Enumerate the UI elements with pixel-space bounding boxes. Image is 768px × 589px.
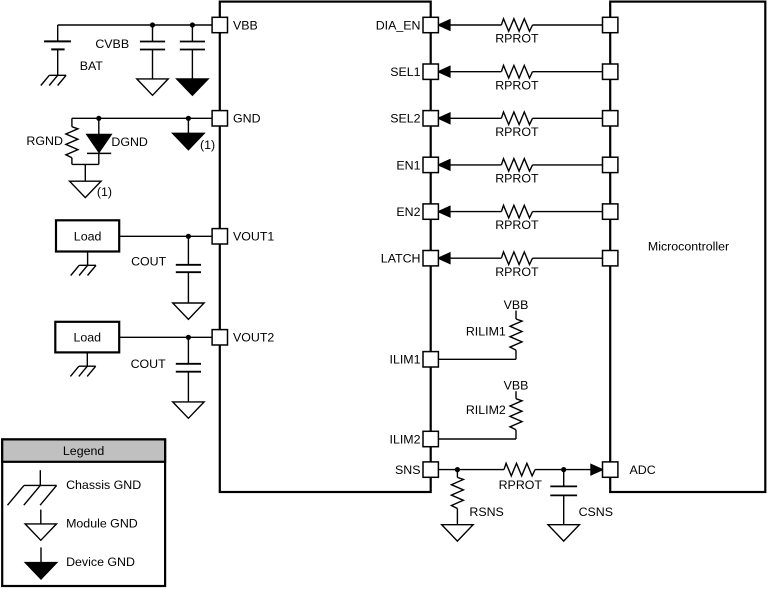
device ground (1) at GND pin (173, 133, 204, 149)
pin GND (212, 111, 227, 126)
node junction device ground at GND (186, 116, 191, 121)
svg-text:VOUT1: VOUT1 (233, 230, 274, 244)
svg-text:Chassis GND: Chassis GND (66, 478, 141, 492)
wire EN2 from arrow to resistor (450, 211, 502, 213)
svg-text:RILIM1: RILIM1 (466, 325, 506, 339)
resistor RPROT (EN1) (501, 159, 532, 172)
legend device GND symbol (40, 547, 42, 562)
pin LATCH on IC (423, 251, 438, 266)
load block 2 (55, 322, 119, 353)
capacitor COUT (VOUT1) (176, 264, 201, 266)
pin VBB (212, 17, 227, 32)
legend box (2, 439, 165, 586)
wire EN1 from arrow to resistor (450, 164, 502, 166)
svg-text:Device GND: Device GND (66, 555, 135, 569)
svg-text:GND: GND (233, 112, 261, 126)
arrowhead into EN1 (438, 160, 450, 170)
svg-text:RPROT: RPROT (495, 218, 539, 232)
svg-text:VBB: VBB (233, 18, 258, 32)
chassis ground below load 1 (79, 264, 96, 266)
pin ILIM1 (423, 352, 438, 367)
svg-text:RPROT: RPROT (495, 265, 539, 279)
pin DIA_EN on IC (423, 17, 438, 32)
svg-text:Load: Load (74, 331, 102, 345)
chassis ground below battery (49, 74, 66, 76)
pin SEL2 on microcontroller (603, 111, 618, 126)
svg-text:RSNS: RSNS (469, 505, 503, 519)
svg-text:CSNS: CSNS (579, 505, 613, 519)
module ground below COUT2 (173, 402, 204, 418)
pin SEL1 on IC (423, 64, 438, 79)
node junction RSNS (455, 467, 460, 472)
svg-text:VBB: VBB (504, 298, 529, 312)
pin EN2 on IC (423, 204, 438, 219)
wire bypass cap top lead (191, 25, 193, 42)
module ground (1) below DGND (70, 181, 101, 197)
svg-text:SEL2: SEL2 (390, 112, 420, 126)
diode DGND (87, 135, 111, 153)
wire COUT2 bottom lead (187, 372, 189, 402)
legend module GND symbol (40, 510, 42, 524)
node junction bypass cap (190, 22, 195, 27)
wire RGND bottom lead (71, 158, 73, 165)
legend header bar (2, 439, 165, 461)
chassis ground below load 2 (79, 365, 96, 367)
resistor RPROT (SNS) (504, 463, 535, 476)
svg-text:ILIM1: ILIM1 (390, 353, 421, 367)
arrowhead into SEL2 (438, 113, 450, 123)
svg-text:CVBB: CVBB (95, 37, 129, 51)
wire bypass cap bottom lead (191, 50, 193, 79)
load block 1 (56, 220, 119, 251)
wire COUT1 bottom lead (187, 272, 189, 303)
pin DIA_EN on microcontroller (603, 17, 618, 32)
wire GND rail (72, 117, 212, 119)
wire RILIM1 top lead (515, 311, 517, 320)
svg-text:Microcontroller: Microcontroller (648, 239, 729, 253)
wire SEL2 resistor to microcontroller (533, 117, 603, 119)
module ground below COUT1 (173, 303, 204, 319)
microcontroller U2 box (610, 2, 765, 492)
svg-text:RPROT: RPROT (495, 125, 539, 139)
wire LATCH resistor to microcontroller (533, 257, 603, 259)
wire bottom rail RGND-DGND (72, 163, 99, 165)
svg-text:Legend: Legend (63, 444, 104, 458)
wire RGND top lead (71, 118, 73, 126)
wire EN1 resistor to microcontroller (533, 164, 603, 166)
resistor RPROT (EN2) (501, 205, 532, 218)
pin EN2 on microcontroller (603, 204, 618, 219)
node junction CSNS (561, 467, 566, 472)
resistor RGND (66, 127, 78, 158)
pin VOUT1 (212, 229, 227, 244)
wire RILIM1 bottom lead (515, 350, 517, 359)
wire RPROT to ADC (535, 469, 591, 471)
wire LATCH from arrow to resistor (450, 257, 502, 259)
svg-text:RPROT: RPROT (495, 78, 539, 92)
pin SNS (423, 462, 438, 477)
arrowhead into EN2 (438, 206, 450, 216)
svg-text:COUT: COUT (131, 255, 167, 269)
wire battery positive lead (57, 25, 59, 41)
wire down to module ground (1) (84, 164, 86, 181)
legend chassis GND symbol (39, 470, 41, 485)
svg-text:(1): (1) (97, 185, 112, 199)
module ground below CVBB (137, 79, 168, 95)
svg-text:DIA_EN: DIA_EN (376, 18, 421, 32)
svg-text:LATCH: LATCH (381, 252, 421, 266)
svg-text:SEL1: SEL1 (390, 65, 420, 79)
svg-text:VBB: VBB (504, 379, 529, 393)
node junction CVBB (150, 22, 155, 27)
svg-text:SNS: SNS (395, 463, 420, 477)
svg-text:RPROT: RPROT (495, 32, 539, 46)
resistor RPROT (SEL2) (501, 112, 532, 125)
arrowhead into LATCH (438, 253, 450, 263)
resistor RILIM1 (510, 319, 522, 350)
svg-text:Load: Load (74, 229, 102, 243)
capacitor COUT (VOUT2) (176, 363, 201, 365)
pin EN1 on IC (423, 157, 438, 172)
node junction COUT1 (186, 234, 191, 239)
wire SNS to RPROT (438, 469, 504, 471)
wire VBB rail (58, 24, 212, 26)
module ground below RSNS (442, 525, 473, 541)
wire COUT2 top lead (187, 337, 189, 364)
svg-text:Module GND: Module GND (66, 517, 138, 531)
wire SEL1 resistor to microcontroller (533, 71, 603, 73)
capacitor CVBB (140, 41, 165, 43)
svg-text:DGND: DGND (111, 135, 148, 149)
wire RSNS top lead (456, 470, 458, 478)
svg-text:ADC: ADC (630, 463, 656, 477)
wire to device ground (1) (187, 118, 189, 133)
pin SEL1 on microcontroller (603, 64, 618, 79)
pin SEL2 on IC (423, 111, 438, 126)
wire RILIM2 bottom lead (515, 430, 517, 439)
device ground below bypass cap (177, 79, 208, 95)
resistor RPROT (SEL1) (501, 65, 532, 78)
pin ADC on microcontroller (603, 462, 618, 477)
wire RSNS bottom lead (456, 509, 458, 525)
wire VOUT1 (119, 235, 212, 237)
svg-text:EN1: EN1 (396, 158, 420, 172)
battery BAT (44, 40, 71, 42)
wire CVBB top lead (152, 25, 154, 42)
svg-text:RILIM2: RILIM2 (466, 403, 506, 417)
wire CSNS bottom lead (563, 495, 565, 524)
svg-text:VOUT2: VOUT2 (233, 331, 274, 345)
capacitor C2 (VBB bypass) (180, 41, 205, 43)
node junction COUT2 (186, 335, 191, 340)
arrowhead into ADC (591, 464, 603, 474)
wire RILIM2 top lead (515, 391, 517, 399)
wire SEL1 from arrow to resistor (450, 71, 502, 73)
svg-text:BAT: BAT (80, 59, 104, 73)
wire CVBB bottom lead (152, 50, 154, 79)
svg-text:RPROT: RPROT (499, 478, 543, 492)
pin VOUT2 (212, 330, 227, 345)
pin EN1 on microcontroller (603, 157, 618, 172)
wire load2 ground stem (86, 352, 88, 366)
wire DGND anode lead (98, 118, 100, 134)
wire EN2 resistor to microcontroller (533, 211, 603, 213)
wire COUT1 top lead (187, 236, 189, 264)
capacitor CSNS (550, 485, 577, 487)
wire DIA_EN resistor to microcontroller (533, 24, 603, 26)
svg-text:(1): (1) (200, 138, 215, 152)
svg-text:ILIM2: ILIM2 (390, 432, 421, 446)
resistor RSNS (451, 477, 463, 508)
arrowhead into SEL1 (438, 67, 450, 77)
wire DIA_EN from arrow to resistor (450, 24, 502, 26)
wire VOUT2 (119, 336, 212, 338)
node junction DGND (96, 116, 101, 121)
pin LATCH on microcontroller (603, 251, 618, 266)
wire SEL2 from arrow to resistor (450, 117, 502, 119)
svg-text:COUT: COUT (131, 357, 167, 371)
resistor RPROT (LATCH) (501, 252, 532, 265)
module ground below CSNS (548, 525, 579, 541)
pin ILIM2 (423, 431, 438, 446)
wire CSNS top lead (563, 470, 565, 487)
svg-text:RGND: RGND (26, 134, 63, 148)
wire load1 ground stem (87, 252, 89, 266)
svg-text:EN2: EN2 (396, 205, 420, 219)
resistor RPROT (DIA_EN) (501, 19, 532, 32)
svg-text:RPROT: RPROT (495, 172, 539, 186)
device IC box (smart high-side switch) (220, 2, 431, 492)
arrowhead into DIA_EN (438, 20, 450, 30)
resistor RILIM2 (510, 399, 522, 430)
